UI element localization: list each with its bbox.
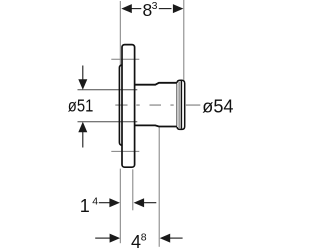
svg-text:4: 4 [92, 196, 98, 208]
flange upper edge line [111, 58, 139, 60]
arrow 4/8 left [110, 234, 121, 243]
socket tube and bell outline [135, 83, 177, 127]
arrow diameter 51 bottom [78, 122, 87, 133]
leader line diameter 54 [186, 104, 200, 106]
socket bead outer profile [177, 80, 185, 129]
extension line 1/4 right [132, 169, 134, 210]
extension line diameter 51 top [78, 89, 138, 91]
dimension tail diameter 51 bottom [82, 132, 84, 148]
extension line diameter 51 bottom [78, 121, 138, 123]
arrow 1/4 left [109, 198, 120, 207]
dimension tail diameter 51 top [82, 66, 84, 80]
gasket seal ring [119, 65, 122, 145]
arrow 8/3 left [121, 4, 132, 13]
extension line left (bottom segment) [119, 169, 121, 244]
svg-text:8: 8 [141, 232, 147, 244]
dimension line 1/4 tails [99, 202, 110, 204]
extension line 8/3 right [183, 0, 185, 80]
centerline [115, 104, 200, 106]
svg-text:ø54: ø54 [202, 96, 233, 116]
dimension line 4/8 tails [95, 237, 110, 239]
arrow 1/4 right [134, 198, 145, 207]
arrow diameter 51 top [78, 79, 87, 90]
flange collar plate [122, 45, 135, 168]
svg-text:3: 3 [152, 0, 158, 12]
svg-text:1: 1 [80, 196, 90, 216]
bead inner thin line [178, 82, 180, 129]
arrow 4/8 right [160, 234, 171, 243]
flange lower edge line [111, 150, 139, 152]
arrow 8/3 right [173, 4, 184, 13]
bell end face line [176, 83, 178, 126]
bead inner thick line [180, 81, 182, 129]
svg-text:ø51: ø51 [68, 96, 94, 116]
dimension line 8/3 tails [132, 8, 142, 10]
svg-text:4: 4 [131, 232, 141, 250]
extension line left (8/3 and 4/8, top segment) [119, 1, 121, 65]
extension line 4/8 right [158, 127, 160, 247]
